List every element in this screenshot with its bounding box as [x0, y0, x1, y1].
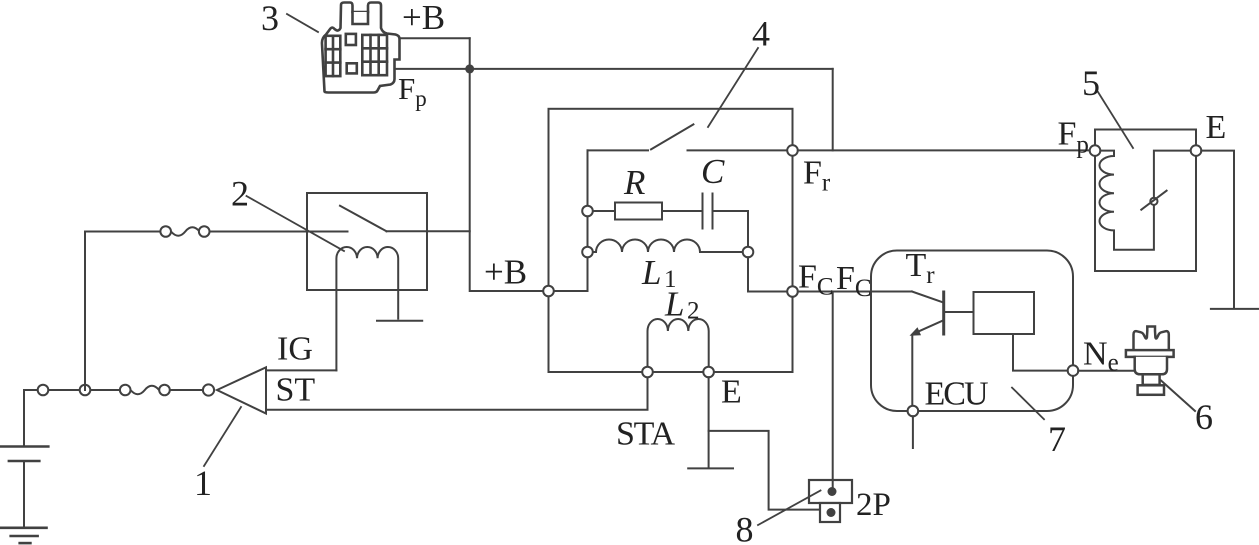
- leader line for 5: [1098, 92, 1133, 148]
- fuel pump 5 box: [1095, 130, 1196, 272]
- ground (relay E): [688, 467, 733, 469]
- relay 4 contact: [588, 124, 788, 150]
- inductor L2: [648, 319, 709, 367]
- terminal ECU ground: [908, 406, 919, 417]
- wire left node (switch/R/L1 to +B): [554, 150, 588, 291]
- wire L1 right to FC: [748, 257, 787, 291]
- ECU box: [871, 251, 1073, 412]
- wire E to ground: [708, 377, 710, 467]
- terminal +B: [543, 286, 554, 297]
- fuse (main line): [120, 385, 170, 396]
- relay 2 box: [307, 193, 427, 290]
- wire C to L1 right node: [747, 211, 749, 247]
- speed sensor 6: [1126, 327, 1174, 395]
- capacitor C: [703, 194, 749, 229]
- svg-text:1: 1: [194, 463, 212, 503]
- pin dot (2P lower): [827, 508, 836, 517]
- svg-text:8: 8: [736, 510, 754, 545]
- relay 2 coil: [336, 247, 398, 370]
- wire FC down to check connector 2P: [832, 292, 834, 492]
- terminal FC: [787, 286, 798, 297]
- terminal: [80, 385, 91, 396]
- terminal (R/L1 left): [582, 206, 593, 217]
- battery: [0, 447, 48, 462]
- junction dot: [465, 64, 474, 73]
- ignition switch 1: [203, 367, 266, 413]
- leader line for 4: [708, 48, 758, 127]
- svg-text:L: L: [641, 253, 661, 292]
- ground (battery): [0, 528, 47, 543]
- svg-text:IG: IG: [277, 331, 313, 368]
- svg-text:7: 7: [1048, 419, 1066, 459]
- wire Fp from check connector: [396, 68, 833, 70]
- terminal Fp (pump): [1090, 145, 1101, 156]
- leader line for 1: [204, 407, 241, 466]
- leader line for 3: [287, 14, 318, 32]
- terminal: [38, 385, 49, 396]
- leader line for 8: [758, 491, 821, 526]
- terminal Fr: [787, 145, 798, 156]
- svg-text:L: L: [664, 285, 684, 324]
- ground (pump E): [1211, 308, 1259, 310]
- ground (relay 2 coil): [377, 320, 422, 322]
- inductor L1: [593, 240, 743, 253]
- terminal Ne: [1068, 365, 1079, 376]
- wire battery negative: [23, 461, 25, 526]
- check connector 3: [322, 3, 400, 93]
- svg-text:5: 5: [1082, 63, 1100, 103]
- svg-text:C: C: [701, 152, 725, 191]
- svg-text:2: 2: [231, 174, 249, 214]
- svg-text:Fp: Fp: [398, 71, 427, 111]
- transistor Tr: [910, 292, 974, 406]
- wire IG: [266, 369, 336, 371]
- wire up to relay 2 feed: [85, 232, 348, 391]
- wire E branch to check connector 2P: [709, 431, 820, 510]
- svg-text:Fp: Fp: [1058, 116, 1089, 159]
- circuit opening relay 4 box: [549, 109, 793, 372]
- wire driver block to Ne: [1013, 334, 1068, 371]
- fuse (relay 2 feed): [160, 226, 209, 237]
- terminal (L1 left): [582, 247, 593, 258]
- wire ECU ground stub: [912, 416, 914, 448]
- relay 2 contact: [340, 206, 470, 232]
- svg-text:FC: FC: [836, 260, 872, 302]
- terminal (L1 right): [743, 247, 754, 258]
- leader line for 6: [1161, 381, 1195, 412]
- pump wire to E: [1154, 151, 1191, 198]
- wire main supply line: [24, 389, 203, 391]
- svg-text:STA: STA: [616, 416, 675, 453]
- wire +B rail vertical down to relay 4: [470, 38, 544, 291]
- wire battery positive: [23, 390, 25, 447]
- wire ST to STA: [266, 377, 648, 410]
- svg-text:6: 6: [1195, 397, 1213, 437]
- svg-text:ECU: ECU: [925, 376, 989, 413]
- svg-text:Ne: Ne: [1083, 336, 1119, 377]
- wire Fp vertical down to Fr line: [832, 69, 834, 150]
- svg-text:2: 2: [687, 298, 700, 325]
- terminal E: [703, 367, 714, 378]
- terminal STA: [642, 367, 653, 378]
- wire Fr to fuel pump Fp: [798, 149, 1090, 151]
- leader line for 2: [247, 196, 345, 251]
- svg-text:E: E: [721, 374, 742, 411]
- svg-text:4: 4: [752, 14, 770, 54]
- svg-text:E: E: [1206, 109, 1227, 146]
- pump armature coil: [1100, 151, 1154, 250]
- wire Ne to sensor: [1078, 370, 1134, 372]
- wire +B from check connector: [399, 37, 470, 39]
- svg-text:+B: +B: [402, 0, 445, 37]
- leader line for 7: [1012, 388, 1044, 420]
- svg-text:3: 3: [261, 0, 279, 38]
- svg-text:Fr: Fr: [803, 155, 831, 197]
- pin dot (2P upper): [828, 487, 837, 496]
- svg-text:FC: FC: [798, 259, 834, 301]
- wire FC to ECU: [798, 291, 912, 293]
- svg-text:R: R: [623, 163, 645, 202]
- svg-text:ST: ST: [276, 372, 316, 409]
- svg-text:Tr: Tr: [906, 247, 936, 289]
- driver block in ECU: [974, 292, 1035, 334]
- resistor R: [593, 203, 703, 220]
- wire FC into 2P pin: [832, 480, 834, 491]
- check connector 8 (2P): [809, 480, 852, 522]
- svg-text:2P: 2P: [856, 487, 891, 523]
- svg-text:+B: +B: [484, 253, 527, 292]
- wire pump E to ground: [1201, 151, 1234, 308]
- pump brush contact: [1141, 191, 1166, 210]
- terminal E (pump): [1191, 145, 1202, 156]
